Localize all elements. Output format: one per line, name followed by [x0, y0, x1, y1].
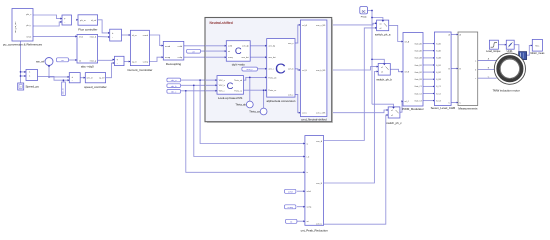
svg-text:G_A3: G_A3 [436, 57, 441, 60]
svg-text:imot_q: imot_q [90, 59, 97, 62]
wire: iq sum to Current_Controller input 2 [124, 61, 130, 63]
block pu_conversion & References [3, 9, 43, 47]
svg-text:ucmq: ucmq [288, 207, 294, 209]
svg-text:u1: u1 [381, 67, 383, 69]
block dq/t ratio inside Neutral-shifted [225, 41, 251, 67]
svg-text:ucmq: ucmq [228, 57, 233, 59]
wire: uchd tag to cnt_Peak_Reduction [297, 190, 305, 192]
svg-text:wm_ref: wm_ref [36, 60, 45, 63]
svg-text:G_C2: G_C2 [436, 93, 441, 95]
svg-text:switch_ph_c: switch_ph_c [386, 121, 402, 125]
svg-text:abc->dq0: abc->dq0 [81, 64, 94, 68]
svg-text:cmd_Neutral-shifted: cmd_Neutral-shifted [301, 117, 327, 121]
svg-text:Gate_C1: Gate_C1 [414, 85, 421, 88]
wire: abc-dq imot_d output to id sum input 2 [98, 36, 110, 38]
svg-text:G_C3: G_C3 [436, 100, 441, 102]
wire: switch_ph_a output to PWM_Modulator ref_A [389, 25, 403, 41]
svg-text:b: b [475, 69, 476, 71]
svg-text:c: c [475, 78, 476, 80]
svg-text:Current_Controller: Current_Controller [127, 68, 152, 72]
block switch_ph_a [375, 20, 391, 36]
wire: Look-up NS Theta_ca to alpha-beta conversion and down to Theta_ca scope [244, 89, 267, 91]
svg-text:ucm_a: ucm_a [288, 43, 295, 45]
block alpha-beta conversion [265, 39, 296, 103]
svg-text:Gate_A1: Gate_A1 [415, 42, 422, 45]
block Look-up based NS inside Neutral-shifted [215, 76, 243, 100]
wire: cmd_Neutral-shifted ucm_c_NS to switch_ph_c input 1 [327, 110, 388, 113]
svg-text:Neutral-shifted: Neutral-shifted [210, 21, 233, 25]
svg-text:wm_pu_nm: wm_pu_nm [15, 22, 17, 33]
wires: nine gate signals PWM_Modulator to Seven_Level_CHB [423, 44, 434, 101]
wire: Current_Controller ucmq to Decoupling input 2 [149, 57, 163, 61]
svg-text:u2: u2 [380, 28, 382, 30]
svg-text:switch_ph_a: switch_ph_a [375, 33, 391, 37]
wire: ucm_c tag to alpha-beta conversion [257, 68, 266, 70]
input port circle wm_ref [36, 58, 53, 67]
block abc to dq current transformation [75, 35, 97, 69]
sum block flux error [60, 15, 71, 25]
svg-text:i_b: i_b [306, 156, 309, 158]
svg-text:pu_conversion & References: pu_conversion & References [3, 43, 43, 47]
wire: wt tag to cnt_Peak_Reduction [297, 220, 305, 222]
svg-text:-: - [112, 36, 113, 39]
svg-text:iq_er: iq_er [132, 61, 137, 64]
svg-text:Gate_A2: Gate_A2 [415, 50, 422, 53]
svg-text:uchd: uchd [307, 191, 311, 193]
svg-text:ucm_B: ucm_B [316, 183, 323, 185]
wire: vdc_b tag to Look-up based NS input 2 with branch down to cnt_Peak_Reduction i_b [181, 84, 217, 86]
svg-text:PS(1): PS(1) [361, 16, 367, 18]
wire: wr tag to abc-dq wt input [69, 59, 78, 61]
From tag wr [57, 58, 69, 62]
svg-text:u1: u1 [380, 23, 382, 25]
svg-text:Speed_pu: Speed_pu [26, 85, 40, 89]
svg-text:cnt_Peak_Reduction: cnt_Peak_Reduction [301, 228, 328, 232]
svg-text:wm_er: wm_er [62, 88, 65, 95]
svg-text:ucmd: ucmd [165, 46, 171, 48]
svg-text:speed_controller: speed_controller [84, 85, 107, 89]
svg-text:ucm_dp: ucm_dp [242, 46, 249, 48]
svg-text:vdc_c: vdc_c [171, 92, 176, 94]
wire: alpha-beta ucm_a to cmd_Neutral-shifted ucl_A [295, 25, 300, 43]
wire: speed_controller iq_ref up to iq sum input 2 [106, 63, 115, 78]
motor Tm input port block (dark) [519, 52, 527, 60]
svg-text:Gate_C3: Gate_C3 [414, 99, 421, 102]
wire: Current_Controller ucmd to Decoupling input 1 [149, 35, 163, 46]
block Unit1 rate limiter [505, 40, 514, 53]
wire: abc-dq imot_q output to iq sum input 1 [98, 59, 115, 62]
svg-text:ucmd: ucmd [143, 35, 149, 37]
svg-text:Gate_B1: Gate_B1 [415, 64, 422, 67]
rotated goto tag block near speed sum [62, 82, 66, 96]
svg-text:Look-up based NS: Look-up based NS [218, 96, 242, 100]
svg-text:G_B1: G_B1 [436, 65, 441, 67]
block switch_ph_b [376, 64, 392, 82]
svg-text:ucm_a_NS: ucm_a_NS [316, 25, 326, 27]
svg-text:ucmq: ucmq [307, 207, 312, 209]
wire: cnt_Peak_Reduction ucm_A up to switch_ph_a input 2 [324, 28, 377, 141]
block PWM_Modulator [401, 33, 423, 111]
7MW induction motor ring symbol [492, 53, 525, 93]
svg-text:nmot: nmot [26, 35, 31, 38]
wire: cnt_Peak_Reduction ucm_B up to switch_ph_b input 2 [324, 72, 379, 184]
svg-text:Gate_A3: Gate_A3 [415, 57, 422, 60]
svg-text:ucm_b: ucm_b [288, 69, 294, 71]
wire: cmd_Neutral-shifted ucm_b_NS to switch_ph_b input 1 [327, 67, 378, 70]
svg-text:Gate_B3: Gate_B3 [415, 78, 422, 81]
wire: cnt_Peak_Reduction ucm_C up to switch_ph_c input 2 [324, 115, 389, 224]
From tag wt [187, 49, 201, 53]
svg-text:ic: ic [307, 172, 308, 174]
svg-text:ucm_b_NS: ucm_b_NS [316, 70, 326, 72]
mux block for measured speed [24, 70, 37, 81]
svg-text:C: C [275, 61, 286, 78]
svg-text:ref_C: ref_C [405, 100, 410, 103]
svg-text:Measurements: Measurements [458, 107, 478, 111]
wire: phi_r feedback from pu_conversion to flux sum input 2 [33, 22, 62, 26]
svg-text:ucm_bet: ucm_bet [268, 56, 276, 59]
block Motor_meas [530, 39, 545, 55]
wire: ucmq tag to cnt_Peak_Reduction [297, 206, 305, 208]
wire: Unit1 to motor Tm port [514, 45, 519, 52]
svg-text:Gate_C2: Gate_C2 [414, 92, 421, 95]
wire: alpha-beta ucm_c to cmd_Neutral-shifted ucl_C [295, 95, 300, 113]
svg-text:Gate_B2: Gate_B2 [415, 71, 422, 74]
sum block id error [108, 29, 122, 41]
subsystem container Neutral-shifted (gray area) [205, 18, 333, 124]
svg-text:wr: wr [61, 59, 64, 62]
wire: alpha-beta ucm_b to cmd_Neutral-shifted ucl_B [295, 69, 300, 70]
svg-text:ucm_c_NS: ucm_c_NS [316, 113, 326, 115]
wire: id sum to Current_Controller input 1 [122, 34, 131, 36]
svg-text:id_ref: id_ref [91, 19, 97, 22]
wires inside Neutral-shifted area re-drawn over gray fill [205, 25, 300, 113]
wire: mux output to speed sum input 2 [38, 76, 70, 80]
svg-text:ucm_bet: ucm_bet [241, 56, 249, 59]
wire: dq/t ratio ucm_dp to alpha-beta conversion [250, 45, 267, 47]
svg-text:ucl_A: ucl_A [302, 24, 307, 27]
svg-text:-: - [64, 21, 65, 24]
wire: dq/t ratio ucm_bet to alpha-beta conversion [250, 56, 267, 58]
svg-text:Theta_ca: Theta_ca [268, 89, 277, 92]
svg-text:Theta_ca: Theta_ca [249, 111, 260, 114]
From tag vdc_a [167, 78, 181, 82]
wire: motor Tm block to Motor_meas [527, 45, 533, 55]
svg-text:ucm_c: ucm_c [247, 69, 253, 71]
block Flux controller [76, 15, 97, 32]
svg-text:Load_torque: Load_torque [486, 49, 501, 53]
block Seven_Level_CHB [431, 32, 455, 110]
svg-text:VDC_b: VDC_b [219, 85, 225, 87]
wire: Decoupling uchd into Neutral-shifted area to dq/t ratio input 1 [184, 45, 227, 47]
svg-text:ucl_B: ucl_B [302, 70, 307, 72]
block Measurements [457, 32, 478, 111]
svg-text:switch_ph_b: switch_ph_b [376, 77, 392, 81]
display block Speed_pu [18, 83, 40, 90]
wire: cmd_Neutral-shifted ucm_a_NS to switch_ph_a input 1 [327, 23, 377, 25]
svg-text:u2: u2 [381, 72, 383, 74]
svg-text:VDC_a: VDC_a [219, 80, 226, 82]
svg-text:G_B3: G_B3 [436, 79, 441, 81]
svg-text:ucm_dp: ucm_dp [268, 46, 275, 48]
svg-text:u1: u1 [391, 110, 393, 112]
svg-text:Theta_ab: Theta_ab [234, 79, 242, 82]
wire: wm_ref down to speed sum input 1 [49, 66, 69, 77]
svg-text:ucm_C: ucm_C [316, 224, 323, 226]
wires: phases a b c from Measurements to induction motor [478, 58, 497, 79]
From tag ucmq (bottom) [285, 205, 296, 209]
svg-text:imot_d: imot_d [90, 36, 97, 39]
svg-text:Theta_ca: Theta_ca [234, 90, 243, 93]
svg-text:vdc_a: vdc_a [171, 80, 177, 82]
From tag vdc_b [167, 84, 181, 88]
svg-text:VDC_c: VDC_c [219, 91, 225, 93]
wire: DC constant to switch control inputs of the three switches [368, 11, 373, 105]
svg-text:PWM_Modulator: PWM_Modulator [402, 107, 424, 111]
svg-text:ucm_c: ucm_c [288, 94, 294, 96]
wire: wt From-tag into dq/t ratio input 2 [201, 50, 227, 52]
From tag ucm_c [242, 67, 258, 71]
wire: Decoupling uchq to dq/t ratio input 3 [184, 56, 227, 58]
From tag wt (bottom) [286, 219, 297, 223]
svg-text:Flux controller: Flux controller [78, 27, 97, 31]
svg-text:phi_s: phi_s [26, 14, 32, 16]
block cnt_Peak_Reduction [301, 136, 328, 233]
block switch_ph_c [386, 107, 402, 125]
wire: phi_s reference from pu_conversion to flux sum input 1 [33, 15, 62, 19]
wire: stub to rotated tag block [62, 80, 64, 82]
svg-text:C: C [227, 80, 234, 91]
svg-text:dq/t->ratio: dq/t->ratio [232, 62, 245, 66]
wire: vdc_c tag to Look-up based NS input 3 with branch down to cnt_Peak_Reduction ic [181, 90, 217, 92]
sum block iq error [113, 56, 124, 65]
svg-text:ucm_A: ucm_A [316, 140, 323, 143]
wire: vdc_a tag to Look-up based NS input 1 with branch down to cnt_Peak_Reduction ia [181, 79, 217, 81]
svg-text:G_B2: G_B2 [436, 72, 441, 74]
output port circle Theta_ab [235, 101, 253, 108]
svg-text:phi_r: phi_r [26, 24, 31, 27]
svg-text:Unit1: Unit1 [507, 49, 514, 53]
svg-text:-: - [72, 80, 73, 83]
block cmd_Neutral-shifted [299, 20, 327, 121]
svg-text:Theta_ab: Theta_ab [235, 104, 246, 107]
source block Load_torque [486, 40, 501, 53]
svg-text:Seven_Level_CHB: Seven_Level_CHB [431, 106, 455, 110]
sum block speed error [68, 73, 81, 83]
svg-text:Motor_meas: Motor_meas [530, 52, 545, 55]
block Decoupling [162, 41, 184, 65]
svg-text:id_er: id_er [132, 34, 137, 37]
wire: Load_torque to Unit1 [498, 44, 506, 46]
svg-text:u2: u2 [391, 115, 393, 117]
svg-text:uchd: uchd [228, 46, 232, 48]
output port circle Theta_ca [249, 108, 267, 115]
block Current_Controller [127, 30, 152, 72]
svg-text:ucm_c: ucm_c [268, 69, 274, 71]
wire: Flux controller id_ref to id sum input 1 [98, 20, 110, 33]
svg-text:G_A1: G_A1 [436, 42, 441, 45]
svg-text:phi_er: phi_er [80, 19, 86, 22]
svg-text:7MW induction motor: 7MW induction motor [492, 89, 519, 93]
svg-text:ref_A: ref_A [405, 40, 410, 43]
block speed_controller [84, 73, 107, 89]
constant block DC [360, 7, 368, 19]
wire: Look-up NS Theta_ab to alpha-beta conversion and down to Theta_ab scope [244, 77, 267, 80]
svg-text:ucmq: ucmq [165, 57, 171, 59]
wires: three phase connections Seven_Level_CHB to Measurements [451, 35, 458, 103]
svg-text:ref_B: ref_B [405, 71, 410, 74]
svg-text:G_A2: G_A2 [436, 50, 441, 53]
svg-text:iq_ref: iq_ref [99, 77, 105, 80]
wire: nmot from pu_conversion to abc-dq block input [33, 35, 77, 37]
wire: switch_ph_c output to PWM_Modulator ref_C [400, 101, 403, 112]
svg-text:DC: DC [362, 9, 366, 13]
svg-text:wm_er: wm_er [87, 77, 94, 80]
svg-text:C: C [235, 45, 242, 56]
svg-text:vdc_b: vdc_b [171, 86, 177, 88]
svg-text:G_C1: G_C1 [436, 86, 441, 88]
svg-text:ucl_C: ucl_C [302, 113, 307, 115]
wire: wm_pu from pu_conversion bottom port down to mux and Speed_pu display [20, 41, 22, 83]
wire: speed sum to speed_controller [80, 77, 85, 79]
wire: switch_ph_b output to PWM_Modulator ref_B [390, 69, 403, 71]
From tag uchd (bottom) [285, 189, 296, 193]
svg-text:alpha-beta conversion: alpha-beta conversion [266, 99, 295, 103]
From tag vdc_c [167, 90, 181, 94]
svg-text:ucmq: ucmq [143, 62, 149, 64]
svg-text:Decoupling: Decoupling [166, 62, 182, 66]
svg-text:imot: imot [79, 36, 83, 39]
